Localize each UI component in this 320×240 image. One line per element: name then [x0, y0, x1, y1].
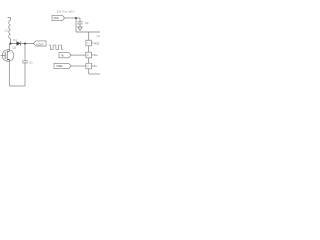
svg-text:D1: D1 [13, 38, 17, 42]
svg-text:VDD: VDD [53, 16, 59, 20]
svg-text:U1: U1 [97, 35, 100, 38]
svg-text:IN: IN [61, 53, 64, 57]
svg-text:IN+: IN+ [94, 53, 99, 57]
svg-text:VREF: VREF [56, 64, 63, 68]
svg-text:VOUT: VOUT [36, 42, 44, 46]
svg-text:Q1: Q1 [12, 45, 16, 49]
svg-text:VDD: VDD [94, 41, 100, 45]
svg-text:L1: L1 [5, 29, 9, 33]
svg-text:C4: C4 [85, 21, 89, 25]
svg-text:3.6 V to 18 V: 3.6 V to 18 V [57, 10, 76, 14]
svg-text:C1: C1 [29, 60, 33, 64]
svg-text:IN-: IN- [94, 64, 98, 68]
